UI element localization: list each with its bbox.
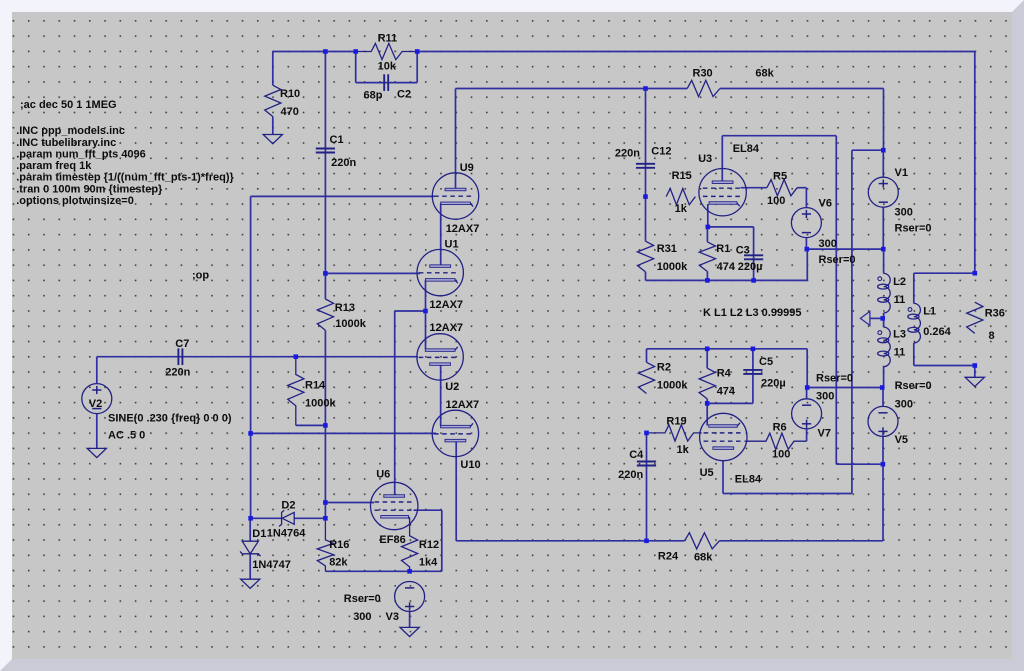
wire <box>440 365 442 426</box>
junction <box>323 49 328 54</box>
junction <box>248 516 253 521</box>
junction <box>407 569 412 574</box>
resistor R11 <box>356 43 418 59</box>
resistor R19 <box>647 425 702 441</box>
svg-text:.INC ppp_models.inc: .INC ppp_models.inc <box>16 125 125 137</box>
wire <box>272 117 274 135</box>
wire <box>251 432 436 434</box>
wire <box>914 365 975 367</box>
triode U9 <box>432 173 478 219</box>
capacitor C5 <box>743 369 762 371</box>
ground <box>400 627 419 636</box>
junction <box>751 347 756 352</box>
junction <box>706 225 711 230</box>
resistor R4 <box>699 368 715 399</box>
svg-text:10k: 10k <box>378 61 397 73</box>
junction <box>353 49 358 54</box>
wire <box>797 187 806 189</box>
wire <box>806 249 808 280</box>
pentode U6 <box>371 482 418 529</box>
wire <box>324 330 326 518</box>
svg-text:U3: U3 <box>698 153 712 165</box>
voltage source V3 <box>395 582 425 612</box>
wire <box>441 510 443 571</box>
svg-text:EL84: EL84 <box>733 143 760 155</box>
junction <box>973 271 978 276</box>
junction <box>415 49 420 54</box>
junction <box>423 309 428 314</box>
wire <box>882 388 884 407</box>
svg-text:Rser=0: Rser=0 <box>895 223 932 235</box>
svg-text:R36: R36 <box>985 308 1005 320</box>
svg-text:.tran 0 100m 90m {timestep}: .tran 0 100m 90m {timestep} <box>16 183 163 195</box>
wire <box>835 136 837 465</box>
wire <box>722 461 724 494</box>
wire <box>974 52 976 274</box>
svg-text:V6: V6 <box>819 198 832 210</box>
voltage source V1 <box>868 177 898 207</box>
svg-text:K L1 L2 L3 0.99995: K L1 L2 L3 0.99995 <box>703 307 801 319</box>
svg-text:V5: V5 <box>895 434 908 446</box>
triode U10 <box>432 410 478 456</box>
wire <box>974 366 976 378</box>
voltage source V5 <box>868 406 898 436</box>
svg-text:L1: L1 <box>923 306 936 318</box>
svg-text:R15: R15 <box>672 170 692 182</box>
voltage source V6 <box>791 208 821 238</box>
wire <box>706 272 708 281</box>
resistor R13 <box>317 299 333 330</box>
capacitor C2 <box>383 74 385 91</box>
svg-text:R12: R12 <box>419 539 439 551</box>
svg-text:.INC tubelibrary.inc: .INC tubelibrary.inc <box>16 137 116 149</box>
capacitor C1 <box>316 148 335 150</box>
wire <box>646 433 648 541</box>
junction <box>323 500 328 505</box>
voltage source V2 <box>82 384 112 414</box>
wire <box>409 611 411 627</box>
wire <box>96 357 98 384</box>
wire <box>882 464 884 541</box>
svg-text:.param freq 1k: .param freq 1k <box>16 160 92 172</box>
wire <box>852 149 883 151</box>
junction <box>644 539 649 544</box>
diode D2 1N4764 <box>282 512 294 524</box>
wire <box>325 502 374 504</box>
svg-text:U9: U9 <box>460 162 474 174</box>
wire <box>914 272 975 274</box>
svg-text:AC .5 0: AC .5 0 <box>108 429 145 441</box>
wire <box>883 249 885 273</box>
svg-text:C3: C3 <box>736 245 750 257</box>
wire <box>913 343 915 366</box>
net flag arrow <box>860 311 870 325</box>
svg-text:U6: U6 <box>376 468 390 480</box>
wire <box>706 349 708 368</box>
pentode U5 <box>700 413 747 460</box>
junction <box>323 271 328 276</box>
diode D1 1N4747 <box>242 541 258 554</box>
wire <box>324 52 326 300</box>
wire <box>417 51 975 53</box>
wire <box>707 204 709 227</box>
svg-text:.options plotwinsize=0: .options plotwinsize=0 <box>16 195 134 207</box>
wire <box>706 227 708 242</box>
svg-text:1000k: 1000k <box>657 261 688 273</box>
wire <box>806 388 808 400</box>
wire <box>753 227 755 281</box>
junction <box>881 462 886 467</box>
svg-text:11: 11 <box>894 346 906 358</box>
wire <box>741 187 767 189</box>
svg-text:L2: L2 <box>893 276 906 288</box>
svg-text:220n: 220n <box>618 469 643 481</box>
svg-text:R30: R30 <box>693 68 713 80</box>
resistor R6 <box>745 433 807 449</box>
wire <box>870 317 883 319</box>
junction <box>248 431 253 436</box>
wire <box>723 493 852 495</box>
svg-text:220n: 220n <box>165 367 190 379</box>
svg-text:EF86: EF86 <box>379 534 405 546</box>
junction <box>881 247 886 252</box>
wire <box>883 89 885 151</box>
svg-text:1N4764: 1N4764 <box>267 527 306 539</box>
svg-text:U2: U2 <box>445 381 459 393</box>
wire <box>97 356 418 358</box>
wire <box>96 413 98 448</box>
svg-text:68p: 68p <box>364 90 383 102</box>
resistor R16 <box>317 518 333 571</box>
svg-text:V2: V2 <box>89 398 102 410</box>
junction <box>705 401 710 406</box>
svg-text:220µ: 220µ <box>738 261 763 273</box>
wire <box>294 517 325 519</box>
junction <box>880 316 885 321</box>
wire <box>707 402 753 404</box>
wire <box>296 424 326 426</box>
svg-text:C2: C2 <box>397 89 411 101</box>
svg-text:1N4747: 1N4747 <box>252 559 291 571</box>
svg-text:R6: R6 <box>773 422 787 434</box>
wire <box>455 441 457 540</box>
resistor R5 <box>767 180 797 196</box>
svg-text:;ac dec 50 1 1MEG: ;ac dec 50 1 1MEG <box>20 99 117 111</box>
wire <box>752 349 754 404</box>
svg-text:R13: R13 <box>335 302 355 314</box>
wire <box>646 279 808 281</box>
svg-text:220n: 220n <box>331 157 356 169</box>
svg-text:EL84: EL84 <box>735 473 762 485</box>
svg-text:R11: R11 <box>378 33 398 45</box>
wire <box>414 509 442 511</box>
svg-text:;op: ;op <box>192 270 209 282</box>
wire <box>325 570 441 572</box>
wire <box>807 387 882 389</box>
svg-text:C12: C12 <box>651 145 671 157</box>
junction <box>294 354 299 359</box>
svg-text:R24: R24 <box>658 551 679 563</box>
junction <box>973 363 978 368</box>
junction <box>880 385 885 390</box>
resistor R12 <box>402 517 418 571</box>
svg-text:D2: D2 <box>281 500 295 512</box>
svg-text:1000k: 1000k <box>305 398 336 410</box>
resistor R15 <box>666 189 695 205</box>
junction <box>643 194 648 199</box>
wire <box>456 88 688 90</box>
svg-text:C5: C5 <box>759 356 773 368</box>
svg-text:100: 100 <box>772 449 790 461</box>
svg-text:220µ: 220µ <box>761 377 786 389</box>
svg-text:1000k: 1000k <box>335 318 366 330</box>
junction <box>705 278 710 283</box>
svg-text:U1: U1 <box>445 239 459 251</box>
ground <box>87 448 106 457</box>
wire <box>706 399 708 426</box>
svg-text:300: 300 <box>895 207 913 219</box>
svg-text:1k4: 1k4 <box>419 557 438 569</box>
wire <box>645 272 647 281</box>
svg-text:474: 474 <box>717 385 736 397</box>
svg-text:R10: R10 <box>280 88 300 100</box>
wire <box>455 89 457 189</box>
svg-text:82k: 82k <box>329 557 348 569</box>
wire <box>251 195 435 197</box>
resistor R31 <box>637 241 653 272</box>
wire <box>883 313 885 327</box>
wire <box>721 136 723 181</box>
wire <box>251 517 282 519</box>
svg-text:11: 11 <box>894 294 906 306</box>
svg-text:R14: R14 <box>305 379 326 391</box>
svg-text:8: 8 <box>989 330 995 342</box>
wire <box>645 89 647 242</box>
triode U2 <box>417 334 463 380</box>
junction <box>323 423 328 428</box>
wire <box>425 280 427 311</box>
svg-text:470: 470 <box>281 106 299 118</box>
inductor L2 <box>884 273 891 313</box>
svg-text:V1: V1 <box>895 167 908 179</box>
voltage source V7 <box>792 399 822 429</box>
svg-text:300: 300 <box>353 611 371 623</box>
triode U1 <box>417 249 463 295</box>
wire <box>882 150 884 177</box>
junction <box>805 385 810 390</box>
svg-text:R31: R31 <box>657 243 677 255</box>
svg-text:R16: R16 <box>329 539 349 551</box>
junction <box>881 148 886 153</box>
inductor L3 <box>884 327 891 367</box>
resistor R1 <box>699 242 715 272</box>
wire <box>646 349 648 363</box>
svg-text:R1: R1 <box>716 243 730 255</box>
resistor R30 <box>687 80 720 96</box>
wire <box>273 51 356 53</box>
junction <box>323 516 328 521</box>
capacitor C7 <box>177 348 179 365</box>
svg-text:C7: C7 <box>175 338 189 350</box>
svg-text:Rser=0: Rser=0 <box>816 373 853 385</box>
wire <box>440 204 442 267</box>
svg-text:C4: C4 <box>629 449 644 461</box>
wire <box>456 540 684 542</box>
wire <box>851 150 853 493</box>
svg-text:Rser=0: Rser=0 <box>895 380 932 392</box>
svg-text:1k: 1k <box>675 203 688 215</box>
ground <box>241 579 260 588</box>
svg-text:300: 300 <box>816 391 834 403</box>
svg-text:12AX7: 12AX7 <box>446 399 480 411</box>
wire <box>355 52 357 83</box>
svg-text:R5: R5 <box>773 171 787 183</box>
svg-text:SINE(0 .230 {freq} 0 0 0): SINE(0 .230 {freq} 0 0 0) <box>108 413 232 425</box>
svg-text:U10: U10 <box>460 459 480 471</box>
svg-text:12AX7: 12AX7 <box>429 299 463 311</box>
wire <box>325 272 420 274</box>
svg-text:68k: 68k <box>755 68 774 80</box>
svg-text:0.264: 0.264 <box>923 326 951 338</box>
svg-text:100: 100 <box>767 195 785 207</box>
svg-text:R4: R4 <box>717 367 732 379</box>
svg-text:.param num_fft_pts 4096: .param num_fft_pts 4096 <box>16 148 146 160</box>
wire <box>272 52 274 86</box>
svg-text:C1: C1 <box>330 134 344 146</box>
svg-text:R19: R19 <box>666 416 686 428</box>
svg-text:D1: D1 <box>252 528 266 540</box>
junction <box>705 347 710 352</box>
wire <box>720 88 884 90</box>
resistor R36 <box>967 302 983 333</box>
wire <box>647 348 808 350</box>
wire <box>708 226 754 228</box>
svg-text:300: 300 <box>895 398 913 410</box>
junction <box>644 431 649 436</box>
svg-text:1000k: 1000k <box>657 379 688 391</box>
svg-text:474: 474 <box>717 261 736 273</box>
wire <box>249 554 251 579</box>
resistor R10 <box>265 85 281 116</box>
phase dot <box>878 277 882 281</box>
svg-text:L3: L3 <box>893 329 906 341</box>
resistor R14 <box>288 357 304 426</box>
svg-text:300: 300 <box>819 238 837 250</box>
wire <box>807 248 884 250</box>
wire <box>913 273 915 303</box>
svg-text:Rser=0: Rser=0 <box>819 254 856 266</box>
resistor R24 <box>685 533 720 549</box>
wire <box>805 238 807 249</box>
svg-text:12AX7: 12AX7 <box>446 223 480 235</box>
svg-text:V7: V7 <box>818 427 831 439</box>
wire <box>416 52 418 83</box>
wire <box>805 188 807 208</box>
ground <box>965 377 984 386</box>
svg-text:12AX7: 12AX7 <box>429 322 463 334</box>
wire <box>882 208 884 250</box>
wire <box>719 540 883 542</box>
wire <box>249 518 251 541</box>
capacitor C12 <box>636 163 655 165</box>
junction <box>643 86 648 91</box>
wire <box>806 429 808 441</box>
wire <box>394 311 396 494</box>
svg-text:Rser=0: Rser=0 <box>344 593 381 605</box>
inductor L1 <box>914 303 921 343</box>
svg-text:220n: 220n <box>615 148 640 160</box>
pentode U3 <box>699 169 746 216</box>
wire <box>836 463 883 465</box>
wire <box>356 82 418 84</box>
wire <box>425 311 427 349</box>
wire <box>395 310 426 312</box>
svg-text:68k: 68k <box>694 552 713 564</box>
wire <box>806 349 808 388</box>
capacitor C4 <box>637 461 656 463</box>
wire <box>883 366 885 388</box>
svg-text:1k: 1k <box>677 444 690 456</box>
capacitor C3 <box>744 254 763 256</box>
svg-text:R2: R2 <box>657 361 671 373</box>
phase dot <box>878 331 882 335</box>
ground <box>263 135 282 144</box>
svg-text:U5: U5 <box>700 467 714 479</box>
wire <box>250 196 252 518</box>
phase dot <box>908 308 912 312</box>
resistor R2 <box>638 362 654 393</box>
junction <box>805 247 810 252</box>
wire <box>722 135 836 137</box>
wire <box>882 436 884 464</box>
svg-text:.param timestep {1/((num_fft_p: .param timestep {1/((num_fft_pts-1)*freq… <box>16 171 234 183</box>
junction <box>751 278 756 283</box>
svg-text:V3: V3 <box>386 611 399 623</box>
